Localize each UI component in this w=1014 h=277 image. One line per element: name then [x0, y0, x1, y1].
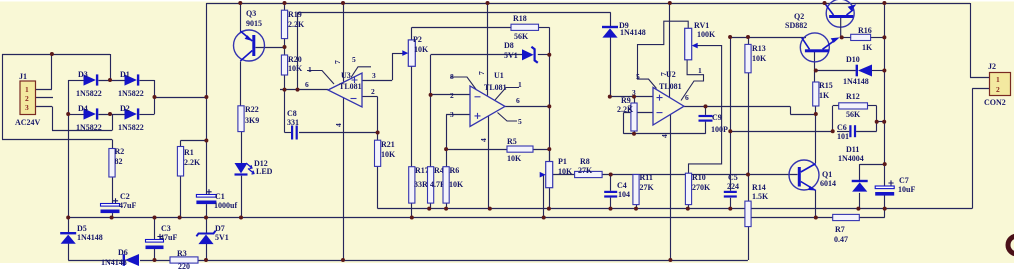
- wire U2 pin6 output: [684, 106, 790, 108]
- junction: [50, 52, 54, 56]
- svg-text:47uF: 47uF: [119, 201, 136, 210]
- svg-text:100P: 100P: [711, 125, 728, 134]
- junction: [882, 35, 886, 39]
- resistor R15 body: [813, 82, 819, 106]
- wire U2 pin2 drop: [623, 113, 625, 134]
- junction: [547, 207, 551, 211]
- junction: [429, 93, 433, 97]
- svg-text:R19: R19: [288, 10, 302, 19]
- wire P2 top lead: [411, 27, 413, 40]
- transistor Q3 collector: [240, 51, 252, 62]
- svg-text:1N4148: 1N4148: [620, 28, 646, 37]
- wire D8 to U1 pin2: [430, 55, 432, 95]
- wire P1 wiper drop: [543, 175, 545, 218]
- junction: [66, 216, 70, 220]
- junction: [840, 35, 844, 39]
- svg-text:27K: 27K: [640, 183, 655, 192]
- wire U3 pin6: [280, 89, 328, 91]
- wire C3 bottom lead: [154, 249, 156, 260]
- op-amp U1 minus: [475, 96, 481, 98]
- junction: [728, 207, 732, 211]
- junction: [239, 216, 243, 220]
- wire U1 pin2: [431, 94, 470, 96]
- wire R1 bottom lead: [180, 176, 182, 218]
- svg-text:TL081: TL081: [484, 83, 507, 92]
- potentiometer P2 body: [408, 40, 415, 66]
- svg-text:8: 8: [450, 72, 454, 81]
- svg-text:R21: R21: [381, 140, 395, 149]
- op-amp U1 plus: [475, 113, 481, 119]
- wire P2 wiper lead: [392, 53, 404, 55]
- svg-text:10K: 10K: [414, 45, 429, 54]
- svg-text:C3: C3: [161, 224, 171, 233]
- diode D7: [196, 231, 215, 237]
- wire D7 bottom lead: [206, 244, 208, 260]
- wire R18 right lead: [539, 27, 550, 29]
- svg-text:224: 224: [727, 182, 739, 191]
- wire R21 top lead: [377, 133, 379, 141]
- junction: [856, 207, 860, 211]
- svg-text:1N5822: 1N5822: [118, 123, 144, 132]
- wire RV1 bottom to U2 pin1: [681, 60, 704, 101]
- junction: [341, 1, 345, 5]
- wire R4 bottom lead: [430, 203, 432, 209]
- wire U1 pin3 drop to R6: [446, 114, 448, 166]
- wire bridge AC bottom riser: [112, 114, 114, 131]
- wire Q2 base to R15: [814, 52, 816, 82]
- connector J2 box: [990, 73, 1011, 96]
- svg-text:5: 5: [352, 55, 356, 64]
- wire C2 bottom lead: [112, 213, 114, 217]
- wire bridge negative vertical: [68, 80, 70, 218]
- svg-text:47uF: 47uF: [160, 233, 177, 242]
- wire U2 pin2: [624, 112, 654, 114]
- svg-text:RV1: RV1: [694, 21, 709, 30]
- svg-text:3K9: 3K9: [245, 116, 259, 125]
- wire Q3 emitter lead: [240, 3, 242, 32]
- junction: [882, 69, 886, 73]
- diode D3: [84, 74, 96, 85]
- wire D9 feed line: [298, 12, 611, 14]
- svg-text:10K: 10K: [752, 54, 767, 63]
- svg-text:C2: C2: [120, 192, 130, 201]
- wire D12 bottom lead: [241, 176, 243, 218]
- svg-text:LED: LED: [256, 167, 273, 176]
- junction: [668, 1, 672, 5]
- wire J2 pin1 riser: [970, 3, 972, 78]
- svg-text:D11: D11: [846, 145, 859, 154]
- svg-text:27K: 27K: [578, 166, 593, 175]
- op-amp U2 minus: [657, 112, 663, 114]
- junction: [632, 95, 636, 99]
- svg-text:D8: D8: [504, 41, 514, 50]
- junction: [547, 147, 551, 151]
- svg-text:D4: D4: [78, 104, 88, 113]
- svg-text:3: 3: [450, 110, 454, 119]
- svg-text:1N5822: 1N5822: [76, 123, 102, 132]
- svg-text:1: 1: [308, 65, 312, 74]
- svg-text:J2: J2: [988, 62, 996, 71]
- wire bottom rail right: [198, 260, 748, 262]
- wire left border vertical: [2, 54, 4, 140]
- transistor Q4 bar: [829, 15, 853, 18]
- wire U3 pin7 V+: [343, 3, 345, 82]
- svg-text:C8: C8: [287, 109, 297, 118]
- transistor Q2 circle: [800, 33, 829, 62]
- junction: [632, 132, 636, 136]
- junction: [296, 88, 300, 92]
- svg-text:TL081: TL081: [659, 82, 682, 91]
- wire D3 anode lead: [68, 80, 83, 82]
- wire D4-D2 link: [99, 114, 125, 116]
- resistor R7 body: [833, 214, 860, 220]
- svg-text:TL081: TL081: [339, 82, 362, 91]
- wire R11 bottom lead: [636, 205, 638, 209]
- wire P1 bottom lead: [549, 188, 551, 209]
- svg-text:R6: R6: [450, 166, 460, 175]
- junction: [609, 207, 613, 211]
- resistor R4 body: [428, 167, 434, 203]
- capacitor C1: [196, 195, 216, 198]
- capacitor C6: [849, 125, 851, 137]
- svg-text:D2: D2: [120, 104, 130, 113]
- junction: [204, 95, 208, 99]
- capacitor C5: [724, 191, 737, 193]
- wire ground rail: [68, 217, 833, 219]
- wire C6 left lead: [837, 131, 849, 133]
- op-amp U1 triangle: [470, 86, 505, 127]
- junction: [108, 78, 112, 82]
- wire U1 pin8 stub: [450, 77, 477, 90]
- svg-text:1N5822: 1N5822: [118, 89, 144, 98]
- wire RV1 top to U2 pin5: [638, 21, 689, 88]
- wire D9 top lead: [610, 12, 612, 27]
- svg-text:U3: U3: [341, 71, 351, 80]
- resistor R8 body: [575, 171, 603, 177]
- svg-text:1: 1: [698, 66, 702, 75]
- junction: [882, 1, 886, 5]
- transistor Q1 collector: [801, 164, 816, 173]
- wire U3 pin3: [362, 80, 392, 82]
- wire P2 wiper riser: [392, 53, 394, 80]
- wire D5 top lead: [68, 218, 70, 234]
- svg-text:7: 7: [477, 71, 486, 75]
- svg-text:D10: D10: [846, 55, 860, 64]
- resistor R16 body: [851, 34, 871, 40]
- capacitor C7: [875, 186, 894, 189]
- transistor Q3 bar: [252, 35, 255, 56]
- wire R21 bottom lead: [377, 166, 379, 208]
- wire U3 pin5 stub: [351, 67, 371, 78]
- potentiometer P1 arrow: [540, 172, 546, 178]
- svg-text:10uF: 10uF: [898, 185, 915, 194]
- junction: [831, 129, 835, 133]
- svg-text:P1: P1: [558, 157, 567, 166]
- svg-text:R2: R2: [115, 147, 125, 156]
- resistor R2 body: [109, 149, 115, 178]
- transistor Q3 emitter: [240, 31, 252, 41]
- svg-text:D1: D1: [120, 70, 130, 79]
- junction: [427, 207, 431, 211]
- capacitor C2: [101, 204, 120, 207]
- junction: [823, 1, 827, 5]
- transistor Q3 circle: [234, 30, 265, 61]
- junction: [814, 69, 818, 73]
- svg-text:82: 82: [115, 157, 123, 166]
- svg-text:R11: R11: [640, 173, 653, 182]
- wire D4 anode lead: [68, 114, 83, 116]
- wire Q3 base: [256, 47, 285, 49]
- wire R4 top lead: [430, 95, 432, 167]
- wire C8 left lead: [285, 132, 292, 134]
- junction: [444, 147, 448, 151]
- wire J1 pin3 stub: [36, 106, 53, 108]
- junction: [204, 258, 208, 262]
- svg-text:D5: D5: [77, 224, 87, 233]
- junction: [238, 1, 242, 5]
- wire U3 pin2: [362, 96, 378, 98]
- wire bottom rail D6-R3: [140, 260, 170, 262]
- resistor R14 body: [745, 201, 751, 227]
- junction: [609, 173, 613, 177]
- svg-text:R15: R15: [819, 81, 833, 90]
- svg-text:56K: 56K: [514, 32, 529, 41]
- wire R12 C6 right vertical: [876, 106, 878, 131]
- svg-text:33R: 33R: [414, 180, 428, 189]
- wire C5 riser: [730, 37, 732, 191]
- wire R13 top lead: [748, 37, 750, 44]
- wire D3-D1 link: [99, 80, 125, 82]
- wire main +V vertical lower to C1: [206, 97, 208, 195]
- wire C7 bottom lead: [884, 194, 886, 209]
- svg-text:C1: C1: [215, 192, 225, 201]
- junction: [204, 139, 208, 143]
- svg-text:9015: 9015: [246, 19, 262, 28]
- svg-text:101: 101: [837, 132, 849, 141]
- junction: [883, 162, 887, 166]
- wire U2 pin4 V-: [670, 115, 672, 260]
- transistor Q1 emitter: [801, 182, 816, 191]
- wire ground rail right of R7: [859, 217, 884, 219]
- svg-text:R10: R10: [692, 173, 706, 182]
- wire D11 branch: [860, 164, 885, 166]
- junction: [814, 216, 818, 220]
- potentiometer RV1 body: [685, 28, 692, 60]
- potentiometer P1 body: [546, 162, 553, 188]
- resistor R1 body: [177, 147, 183, 177]
- junction: [728, 129, 732, 133]
- svg-text:1: 1: [25, 85, 29, 94]
- junction: [153, 216, 157, 220]
- svg-text:Q3: Q3: [246, 9, 256, 18]
- wire D11 bottom lead: [859, 193, 861, 209]
- svg-text:5V1: 5V1: [504, 51, 518, 60]
- resistor R20 body: [281, 55, 287, 75]
- svg-text:R8: R8: [580, 157, 590, 166]
- transistor Q2 bar: [805, 49, 829, 52]
- wire C6 R12 left line: [730, 131, 832, 133]
- junction: [814, 112, 818, 116]
- svg-text:2: 2: [628, 103, 632, 112]
- resistor R17 body: [409, 167, 415, 203]
- svg-text:3: 3: [372, 71, 376, 80]
- diode D12: [235, 163, 248, 173]
- wire main +V vertical upper: [206, 3, 208, 97]
- svg-text:D7: D7: [215, 224, 225, 233]
- wire C8 left riser: [284, 90, 286, 133]
- wire R12 left drop: [832, 106, 834, 131]
- diode D10: [856, 65, 858, 77]
- svg-text:1N5822: 1N5822: [76, 89, 102, 98]
- svg-text:6: 6: [305, 80, 309, 89]
- diode D11: [852, 180, 868, 182]
- capacitor C3: [146, 240, 164, 243]
- svg-text:4: 4: [334, 123, 343, 127]
- svg-text:SD882: SD882: [785, 21, 807, 30]
- wire D10 right lead: [872, 70, 884, 72]
- svg-text:R13: R13: [752, 44, 766, 53]
- resistor R18 body: [511, 24, 539, 30]
- svg-text:R18: R18: [513, 14, 527, 23]
- wire C4 bottom lead: [610, 198, 612, 209]
- wire R8 to Q1 base line: [602, 174, 797, 176]
- transistor Q4 collector: [825, 3, 834, 15]
- junction: [341, 258, 345, 262]
- wire U3 pin4 V-: [343, 98, 345, 260]
- LED arrows D12: [246, 163, 254, 174]
- transistor Q4 base lead: [840, 18, 842, 37]
- svg-text:2.2K: 2.2K: [288, 20, 305, 29]
- svg-text:D6: D6: [118, 248, 128, 257]
- resistor R3 body: [170, 257, 198, 263]
- junction: [204, 216, 208, 220]
- wire Q3 collector to R22: [240, 62, 242, 106]
- wire D2 cathode lead: [140, 114, 155, 116]
- wire Tup base to R16: [842, 37, 851, 39]
- wire D8 cathode lead: [538, 54, 550, 56]
- wire C6 right lead: [856, 131, 877, 133]
- wire U2 pin7 V+: [669, 3, 671, 98]
- wire P2 bottom to R17: [411, 66, 413, 166]
- wire J2 pin1 lead: [970, 77, 990, 79]
- svg-text:7: 7: [333, 60, 342, 64]
- junction: [410, 216, 414, 220]
- resistor R6 body: [443, 167, 449, 203]
- wire D8 R18 feedback vertical: [549, 27, 551, 161]
- svg-text:U1: U1: [494, 71, 504, 80]
- wire output to R15: [790, 114, 816, 116]
- wire D8 anode line: [431, 54, 522, 56]
- svg-text:0.47: 0.47: [834, 235, 848, 244]
- wire R19 top lead: [284, 3, 286, 10]
- resistor R11 body: [633, 175, 639, 205]
- svg-text:270K: 270K: [692, 183, 711, 192]
- svg-text:1: 1: [518, 80, 522, 89]
- wire U1 pin1 stub: [495, 88, 519, 101]
- svg-text:6: 6: [685, 93, 689, 102]
- junction: [283, 1, 287, 5]
- wire J1 pin1 riser: [51, 54, 53, 89]
- junction: [883, 207, 887, 211]
- op-amp U3 plus: [352, 77, 358, 83]
- svg-text:R4: R4: [434, 166, 444, 175]
- svg-text:7: 7: [659, 72, 668, 76]
- svg-text:10K: 10K: [558, 167, 573, 176]
- wire C3 top lead: [154, 218, 156, 240]
- svg-text:C9: C9: [712, 113, 722, 122]
- wire RV1 wiper to R10: [689, 46, 722, 174]
- svg-text:4: 4: [660, 134, 669, 138]
- wire R9 bottom lead: [634, 131, 636, 134]
- wire U1 pin3: [446, 114, 470, 116]
- svg-text:J1: J1: [19, 72, 27, 81]
- wire C4 top lead: [610, 175, 612, 191]
- junction: [376, 131, 380, 135]
- wire R8 left lead: [553, 174, 575, 176]
- junction: [686, 207, 690, 211]
- diode D4: [84, 108, 96, 119]
- potentiometer P2 arrow: [402, 50, 408, 56]
- resistor R21 body: [375, 140, 381, 166]
- wire output jog: [790, 106, 792, 114]
- svg-text:5: 5: [636, 72, 640, 81]
- svg-text:R12: R12: [846, 92, 860, 101]
- wire U3 pin2 drop: [377, 97, 379, 133]
- op-amp U3 minus: [351, 98, 357, 100]
- wire C5 bottom lead: [730, 198, 732, 209]
- junction: [547, 53, 551, 57]
- svg-text:104: 104: [618, 190, 630, 199]
- wire U1 pin4: [488, 116, 490, 209]
- svg-text:1N4148: 1N4148: [843, 77, 869, 86]
- capacitor C4: [604, 191, 617, 193]
- svg-text:1N4148: 1N4148: [101, 258, 127, 267]
- junction: [108, 112, 112, 116]
- diode D1: [125, 74, 137, 85]
- junction: [488, 207, 492, 211]
- junction: [542, 216, 546, 220]
- svg-text:331: 331: [287, 118, 299, 127]
- svg-text:2: 2: [996, 85, 1000, 94]
- svg-text:1N4148: 1N4148: [77, 233, 103, 242]
- wire D1 cathode lead: [140, 80, 155, 82]
- wire Q1 emitter lead: [815, 190, 817, 218]
- svg-text:Q1: Q1: [822, 170, 832, 179]
- op-amp U3 triangle: [328, 73, 362, 107]
- wire J1 pin3 horizontal: [52, 130, 112, 132]
- svg-text:D3: D3: [78, 70, 88, 79]
- svg-text:10K: 10K: [507, 154, 522, 163]
- svg-text:AC24V: AC24V: [15, 118, 41, 127]
- resistor R10 body: [685, 173, 691, 204]
- wire R12 link to main: [877, 121, 885, 123]
- junction: [728, 35, 732, 39]
- wire U1 pin5 stub: [498, 113, 518, 122]
- wire R12 left lead: [833, 105, 839, 107]
- wire R13 to R14 vertical: [748, 73, 750, 201]
- wire R15 to Q1 collector: [815, 106, 817, 163]
- wire R19-R20 link: [284, 39, 286, 55]
- svg-text:R20: R20: [288, 55, 302, 64]
- wire R7 right riser: [884, 209, 886, 218]
- wire R2 top lead: [112, 140, 114, 149]
- diode D5: [60, 232, 76, 234]
- wire U2 pin3: [610, 96, 653, 98]
- wire P1 wiper lead: [541, 174, 544, 176]
- wire R2 to C2: [112, 177, 114, 204]
- svg-text:R5: R5: [507, 137, 517, 146]
- wire J2 pin2 drop: [972, 89, 974, 209]
